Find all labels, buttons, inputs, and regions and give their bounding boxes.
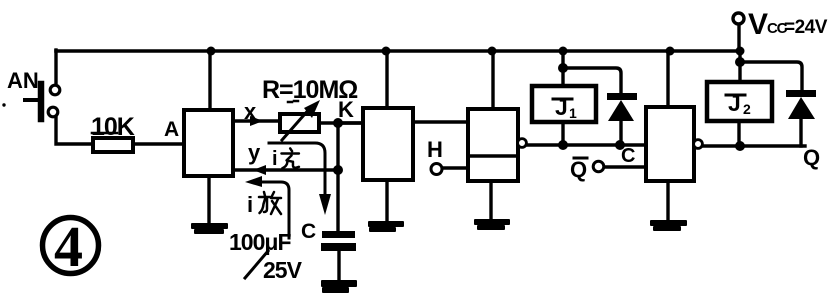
svg-text:10K: 10K xyxy=(91,113,135,141)
svg-text:H: H xyxy=(427,137,443,162)
svg-text:i: i xyxy=(247,192,253,217)
svg-text:J: J xyxy=(555,94,568,120)
svg-text:Q: Q xyxy=(803,145,820,170)
svg-text:AN: AN xyxy=(7,68,39,93)
svg-text:x: x xyxy=(244,99,257,124)
svg-text:4: 4 xyxy=(54,214,83,279)
svg-text:i: i xyxy=(272,148,278,170)
svg-text:Q: Q xyxy=(570,157,587,182)
svg-text:2: 2 xyxy=(743,101,751,117)
svg-text:y: y xyxy=(248,140,261,165)
svg-text:100μF: 100μF xyxy=(229,229,291,255)
svg-text:C: C xyxy=(301,220,316,243)
svg-text:A: A xyxy=(164,118,179,141)
svg-text:25V: 25V xyxy=(263,257,303,283)
svg-text:=24V: =24V xyxy=(784,17,828,38)
svg-text:V: V xyxy=(748,8,768,41)
svg-text:1: 1 xyxy=(569,105,577,121)
svg-text:J: J xyxy=(728,90,741,116)
svg-text:C: C xyxy=(621,145,635,167)
svg-text:K: K xyxy=(338,97,354,122)
